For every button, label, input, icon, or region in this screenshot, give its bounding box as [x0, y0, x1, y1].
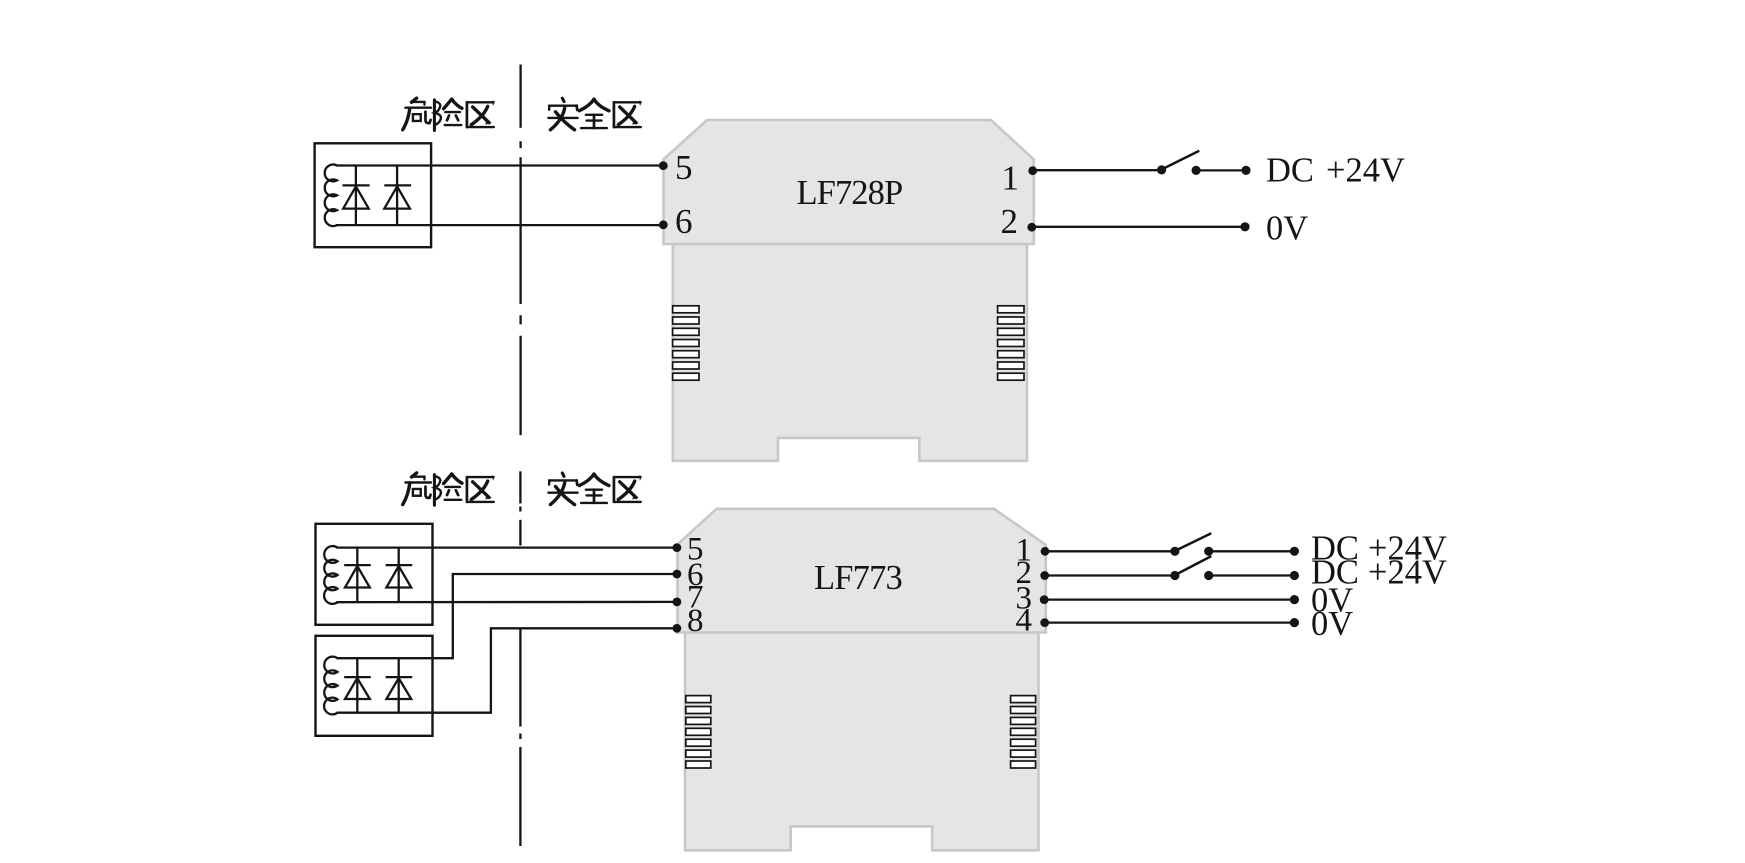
wire switch S2 to +24V terminal [1209, 550, 1295, 552]
terminal 0V (U2 row 3) [1290, 595, 1299, 604]
pin 3 node (U2) [1040, 595, 1049, 604]
switch S3 [1170, 556, 1213, 580]
pin 4 node (U2) [1040, 618, 1049, 627]
module U2 LF773 body [685, 633, 1039, 851]
wire switch S1 to +24V terminal [1196, 169, 1246, 171]
diode D6 [386, 658, 413, 713]
module U1 LF728P body [673, 244, 1027, 461]
svg-text:8: 8 [687, 603, 704, 639]
svg-text:LF773: LF773 [814, 559, 902, 597]
U1 left vent slots [673, 306, 699, 380]
pin 6 node (U2) [673, 570, 682, 579]
wire pin 1 to switch S1 [1033, 169, 1162, 171]
pin 1 node (U2) [1041, 547, 1050, 556]
svg-text:4: 4 [1016, 603, 1033, 639]
diode D2 [384, 166, 411, 226]
pin 8 node (U2) [673, 624, 682, 633]
wire pin 4 to 0V terminal [1045, 621, 1295, 623]
switch S1 [1157, 151, 1201, 175]
svg-text:+24V: +24V [1326, 152, 1405, 190]
diode D5 [344, 658, 371, 713]
svg-text:6: 6 [675, 202, 693, 241]
pin 2 node [1027, 223, 1036, 232]
switch S2 [1170, 533, 1213, 556]
diode D4 [386, 548, 413, 603]
wire switch S3 to +24V terminal [1209, 574, 1295, 576]
U2 right vent slots [1011, 696, 1036, 768]
U1 right vent slots [998, 306, 1024, 380]
pin 7 node (U2) [673, 598, 682, 607]
terminal DC +24V (U2 row 2) [1290, 571, 1299, 580]
label 安全区 (safe area, bottom) [548, 473, 641, 505]
svg-text:+24V: +24V [1368, 554, 1447, 592]
pin 5 node [659, 161, 668, 170]
label 危险区 (hazardous area, top) [403, 98, 495, 130]
terminal DC +24V (top) [1241, 166, 1250, 175]
inductor L1 coil [325, 165, 337, 227]
label 安全区 (safe area, top) [548, 98, 641, 130]
wire pin 3 to 0V terminal [1044, 598, 1294, 600]
wire load L1 top to pin 5 [336, 164, 663, 166]
U2 left vent slots [686, 696, 711, 768]
terminal 0V (top) [1240, 222, 1249, 231]
module U2 LF773 head [678, 509, 1046, 633]
terminal 0V (U2 row 4) [1290, 618, 1299, 627]
svg-text:0V: 0V [1266, 209, 1308, 247]
pin 5 node (U2) [673, 543, 682, 552]
boundary line (hazard/safe dash-dot) bottom [519, 471, 521, 846]
inductor L3 coil [324, 657, 337, 715]
boundary line (hazard/safe dash-dot) top [519, 65, 521, 436]
svg-text:2: 2 [1001, 202, 1019, 241]
wire pin 2 to 0V terminal [1032, 226, 1245, 228]
svg-text:1: 1 [1002, 159, 1020, 198]
pin 1 node [1028, 166, 1037, 175]
wire load L2 top to pin 5 [337, 546, 677, 548]
svg-text:0V: 0V [1311, 605, 1353, 643]
inductor L2 coil [324, 546, 337, 604]
diode D1 [343, 166, 370, 226]
wire pin 1 to switch S2 [1045, 550, 1175, 552]
terminal DC +24V (U2 row 1) [1290, 547, 1299, 556]
wire load L3 top to pin 6 (runs right then up) [337, 574, 677, 658]
load box L1 (solenoid valve with protection diodes) [315, 143, 432, 247]
load box L2 (solenoid valve upper) [316, 524, 433, 625]
wire load L1 bottom to pin 6 [336, 224, 663, 226]
svg-text:LF728P: LF728P [797, 174, 903, 212]
svg-text:5: 5 [675, 148, 693, 187]
module U1 LF728P head [664, 120, 1034, 244]
pin 6 node [659, 220, 668, 229]
svg-text:DC: DC [1266, 152, 1314, 190]
load box L3 (solenoid valve lower) [316, 636, 433, 736]
wire load L2 bottom to pin 7 [337, 601, 677, 604]
diode D3 [344, 548, 371, 603]
label 危险区 (hazardous area, bottom) [403, 473, 495, 505]
wire load L3 bottom to pin 8 (runs right then up) [337, 628, 677, 712]
wire pin 2 to switch S3 [1045, 574, 1175, 576]
pin 2 node (U2) [1040, 571, 1049, 580]
